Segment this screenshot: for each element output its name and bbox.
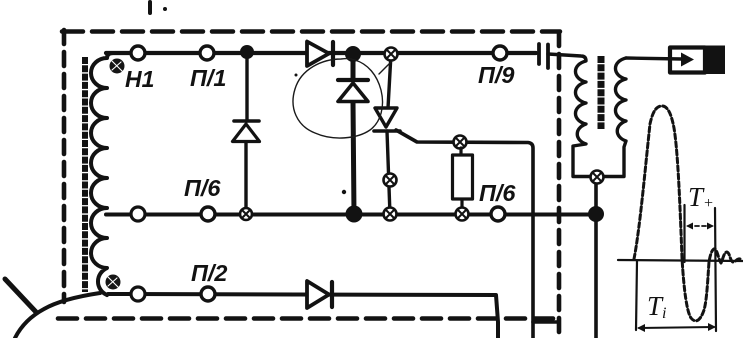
stray scan marks top left bbox=[150, 2, 167, 13]
diode VD2 (left column) bbox=[233, 121, 260, 142]
wire: secondary return x=596 down bbox=[594, 181, 598, 338]
terminal circle П/1 bbox=[200, 46, 214, 60]
stray dot near node bbox=[295, 74, 347, 195]
terminal circle H1 bbox=[131, 46, 145, 60]
diode VD4 on П/2 row bbox=[307, 281, 332, 308]
svg-text:П/1: П/1 bbox=[190, 65, 227, 91]
probe connector icon: solid tip bbox=[705, 46, 725, 75]
waveform zero axis bbox=[618, 260, 743, 261]
enclosure dashed border left bbox=[62, 30, 67, 302]
pencil annotation loop around VD3 bbox=[293, 59, 394, 138]
terminal circle П/6 left (138,214) bbox=[131, 207, 145, 221]
terminal circle П/2 (138,294) bbox=[131, 287, 145, 301]
label П/2 bbox=[191, 260, 228, 286]
enclosure dashed border bottom bbox=[58, 316, 556, 321]
П/6 bus junction: crossed circle under resistor (462,214) bbox=[456, 208, 469, 221]
П/6 bus junction: filled blob at (354,214) bbox=[346, 206, 363, 223]
П/6 bus junction: crossed circle at (246,214) bbox=[240, 208, 252, 220]
label П/6 (right) bbox=[479, 180, 516, 206]
tau_i dimension arrow bbox=[637, 323, 716, 332]
label tau+ bbox=[688, 182, 714, 212]
wire: П/6 bus y=214 bbox=[106, 213, 590, 217]
wire: stub x533 to border at y=322 bbox=[533, 320, 557, 324]
terminal circle П/9 bbox=[493, 46, 507, 60]
label tau_i bbox=[647, 291, 666, 322]
junction blob node at (353,54) bbox=[345, 46, 361, 62]
thyristor/diode VS1 (right column, pointing down) bbox=[374, 108, 400, 131]
output transformer T2 core bbox=[598, 56, 605, 129]
svg-text:П/6: П/6 bbox=[184, 175, 221, 201]
measurement tick left (pulse start) bbox=[636, 261, 637, 330]
П/6 bus junction: crossed circle at (390,214) bbox=[384, 208, 397, 221]
transformer T1 primary winding (taps H1, П/6, П/2) bbox=[91, 53, 113, 295]
capacitor C1 bbox=[539, 44, 548, 68]
junction node at (247,52) bbox=[240, 45, 254, 59]
terminal circle П/2 (208,294) bbox=[201, 287, 215, 301]
wire: middle diode column x=353 (thick) bbox=[353, 54, 354, 214]
output transformer T2 left winding bbox=[548, 54, 590, 177]
wire: gate run to x=533 and down bbox=[396, 130, 533, 338]
diode VD1 on top bus bbox=[307, 42, 333, 67]
label Н1 bbox=[125, 66, 154, 92]
svg-text:П/2: П/2 bbox=[191, 260, 228, 286]
polarity mark (hatched circle) at winding end П/2 bbox=[106, 275, 121, 290]
crossed terminal on top bus (391,54) bbox=[385, 48, 398, 61]
svg-text:i: i bbox=[662, 305, 666, 322]
svg-text:+: + bbox=[703, 195, 714, 212]
terminal circle П/6 right (498,214) bbox=[491, 207, 505, 221]
diode VD3 (middle column) bbox=[338, 80, 368, 102]
wire: thyristor column x=390 bbox=[387, 54, 391, 215]
tau+ dimension arrow bbox=[686, 223, 714, 230]
svg-text:П/9: П/9 bbox=[478, 62, 515, 88]
resistor R1 bbox=[453, 148, 473, 209]
junction dark blob (596,214) bbox=[588, 206, 604, 222]
label П/9 bbox=[478, 62, 515, 88]
output transformer T2 right winding bbox=[604, 58, 626, 177]
measurement tick right bbox=[715, 208, 716, 331]
terminal circle П/6 (208,214) bbox=[201, 207, 215, 221]
secondary common junction (597,177) bbox=[591, 171, 604, 184]
wire: top bus y=53 from winding to capacitor bbox=[106, 51, 536, 55]
wire: left diode column x=247 bbox=[246, 52, 247, 215]
label П/1 bbox=[190, 65, 227, 91]
polarity mark (hatched circle) at winding start H1 bbox=[110, 59, 125, 74]
crossed junction on thyristor column (390,180) bbox=[384, 174, 397, 187]
waveform curve bbox=[634, 106, 740, 321]
transformer T1 core (left hatched bar) bbox=[82, 57, 88, 292]
svg-text:П/6: П/6 bbox=[479, 180, 516, 206]
mains cable arc bottom left bbox=[15, 293, 100, 338]
crossed terminal on gate wire (460,142) bbox=[454, 136, 467, 149]
measurement tick at falling edge bbox=[683, 205, 685, 262]
wire: secondary output to probe with arrow bbox=[626, 53, 694, 67]
wire: П/2 row y=294 bbox=[108, 294, 498, 338]
enclosure dashed border top bbox=[62, 29, 560, 34]
probe connector icon: open box bbox=[670, 48, 705, 73]
label П/6 (left) bbox=[184, 175, 221, 201]
svg-text:Н1: Н1 bbox=[125, 66, 154, 92]
cable tick stroke bbox=[5, 279, 36, 312]
enclosure dashed border right bbox=[557, 32, 562, 336]
